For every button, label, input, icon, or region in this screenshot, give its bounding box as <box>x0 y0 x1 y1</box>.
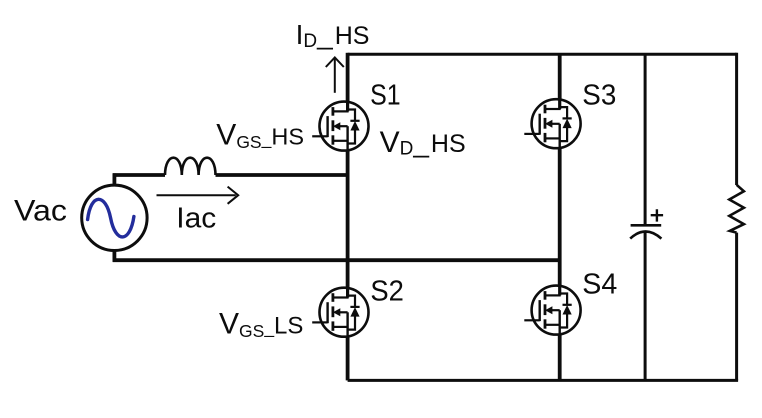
transistor S2 <box>312 286 368 338</box>
svg-text:Iac: Iac <box>176 202 216 234</box>
wire middle rail (Vac return to S3/S4 midpoint) <box>113 258 560 262</box>
capacitor plus sign <box>651 209 663 221</box>
wire S1 to S2 <box>346 150 350 288</box>
svg-text:S4: S4 <box>582 269 617 301</box>
arrow I_D_HS <box>326 57 344 92</box>
svg-text:VD_HS: VD_HS <box>380 126 466 160</box>
wire Vac source top lead <box>113 173 117 185</box>
wire right branch lower (resistor to bottom rail) <box>735 233 738 381</box>
wire Vac top to inductor <box>113 173 165 177</box>
capacitor C top plate <box>631 224 662 227</box>
wire S2 to bottom rail <box>346 337 350 381</box>
wire Vac source bottom lead <box>113 250 117 262</box>
wire bottom rail <box>348 379 738 382</box>
AC source Vac circle <box>82 185 147 250</box>
svg-text:S1: S1 <box>370 80 401 112</box>
capacitor C curved plate <box>630 232 661 239</box>
wire S3/S4 branch: rail to S3 <box>558 54 562 99</box>
svg-text:ID_HS: ID_HS <box>296 19 370 52</box>
transistor S1 <box>312 100 368 152</box>
svg-text:S2: S2 <box>370 276 404 308</box>
svg-text:S3: S3 <box>582 80 616 112</box>
arrow Iac <box>157 187 239 204</box>
transistor S4 <box>524 284 580 336</box>
AC source sine wave <box>88 199 134 237</box>
transistor S3 <box>524 98 580 150</box>
wire S1/S2 branch: rail to S1 <box>346 53 350 102</box>
wire top rail <box>348 53 737 56</box>
inductor L <box>165 158 216 175</box>
wire S4 to bottom rail <box>558 334 562 380</box>
wire right branch upper (to resistor) <box>735 53 738 185</box>
resistor R load <box>729 185 744 233</box>
wire S3 to S4 <box>558 148 562 286</box>
wire inductor to S1/S2 midpoint <box>216 173 348 177</box>
svg-text:VGS_LS: VGS_LS <box>219 307 303 341</box>
svg-text:VGS_HS: VGS_HS <box>216 118 304 152</box>
wire capacitor branch upper <box>644 54 647 224</box>
wire capacitor branch lower <box>644 232 647 380</box>
svg-text:Vac: Vac <box>14 194 67 227</box>
